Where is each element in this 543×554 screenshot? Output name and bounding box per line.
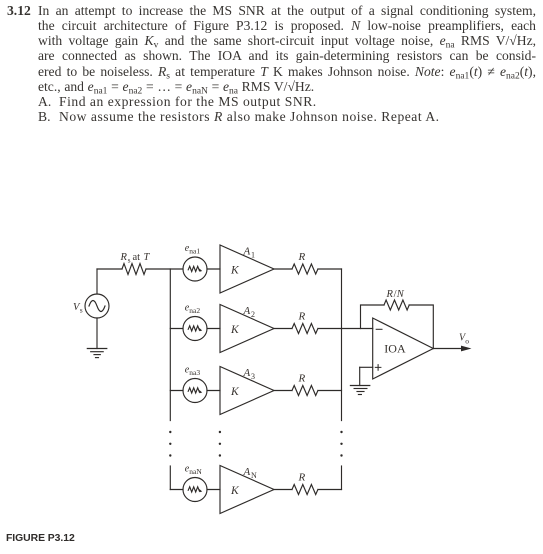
svg-text:T: T xyxy=(144,252,151,263)
svg-text:K: K xyxy=(230,386,240,398)
svg-text:s: s xyxy=(80,306,83,315)
svg-text:o: o xyxy=(465,336,469,345)
svg-text:A: A xyxy=(243,466,251,478)
svg-text:N: N xyxy=(251,471,257,480)
svg-text:K: K xyxy=(230,265,240,277)
svg-text:A: A xyxy=(243,305,251,317)
svg-text:R: R xyxy=(298,311,306,323)
svg-text:R: R xyxy=(120,252,128,263)
svg-text:1: 1 xyxy=(251,251,255,260)
svg-text:3: 3 xyxy=(251,372,255,381)
svg-text:K: K xyxy=(230,485,240,497)
svg-text:naN: naN xyxy=(189,467,202,476)
svg-text:R: R xyxy=(298,373,306,385)
svg-text:A: A xyxy=(243,246,251,258)
svg-text:2: 2 xyxy=(251,310,255,319)
svg-text:IOA: IOA xyxy=(384,341,406,355)
svg-text:R: R xyxy=(298,472,306,484)
svg-text:at: at xyxy=(133,252,141,263)
svg-text:na3: na3 xyxy=(189,368,200,377)
svg-text:N: N xyxy=(396,289,405,300)
svg-text:na1: na1 xyxy=(189,246,200,255)
svg-text:s: s xyxy=(128,255,131,264)
svg-text:R: R xyxy=(386,289,394,300)
svg-text:A: A xyxy=(243,367,251,379)
svg-text:R: R xyxy=(298,251,306,263)
svg-text:K: K xyxy=(230,324,240,336)
svg-text:na2: na2 xyxy=(189,306,200,315)
